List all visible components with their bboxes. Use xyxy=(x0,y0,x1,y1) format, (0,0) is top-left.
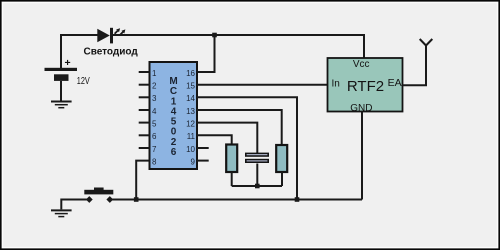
svg-text:RTF2: RTF2 xyxy=(347,78,384,95)
svg-text:+: + xyxy=(65,57,71,69)
resistor R2 xyxy=(276,145,287,172)
wire resistor R2 to common node rail xyxy=(281,172,283,186)
wire battery minus to ground xyxy=(60,81,62,101)
wire LED cathode to RTF2 Vcc xyxy=(113,35,364,59)
wire IC pin 14 to ground rail xyxy=(197,97,297,199)
svg-text:7: 7 xyxy=(152,145,157,154)
svg-text:14: 14 xyxy=(186,94,195,103)
svg-text:5: 5 xyxy=(152,120,157,129)
junction node pin8/ground rail xyxy=(134,197,139,202)
wire top rail to IC pin 16 xyxy=(197,35,215,72)
wire RTF2 GND to ground rail xyxy=(361,112,363,200)
wire battery plus up and right to LED anode xyxy=(61,35,98,68)
svg-text:9: 9 xyxy=(191,158,196,167)
wire IC pin 12 to capacitor C1 xyxy=(197,123,257,154)
wire resistor R1 to common node rail xyxy=(231,172,233,186)
antenna W1 xyxy=(420,39,433,46)
ground (switch) xyxy=(51,210,72,216)
svg-text:4: 4 xyxy=(152,107,157,116)
svg-text:15: 15 xyxy=(186,82,195,91)
wire IC pin 11 to resistor R1 xyxy=(197,135,232,144)
junction node capacitor/rail xyxy=(255,184,260,189)
wire IC pin 15 to RTF2 In xyxy=(197,84,328,86)
junction node at top rail x=214.5 xyxy=(212,33,217,38)
wire IC pin 8 to ground rail xyxy=(136,161,149,200)
svg-text:1: 1 xyxy=(152,69,157,78)
capacitor C1 xyxy=(246,153,268,162)
RF module U2 RTF2 xyxy=(328,58,403,114)
junction node pin14/ground rail xyxy=(295,197,300,202)
svg-text:8: 8 xyxy=(152,158,157,167)
svg-text:12V: 12V xyxy=(77,76,90,87)
svg-text:GND: GND xyxy=(350,103,372,114)
svg-text:13: 13 xyxy=(186,107,195,116)
svg-text:In: In xyxy=(332,78,340,89)
svg-text:10: 10 xyxy=(186,145,195,154)
IC U1 MC145026 xyxy=(139,62,209,169)
svg-text:Vcc: Vcc xyxy=(353,59,370,70)
svg-text:6: 6 xyxy=(171,147,177,158)
wire ground to switch xyxy=(61,200,89,210)
LED D1 xyxy=(97,28,125,44)
resistor R1 xyxy=(226,145,237,173)
wire capacitor C1 to common node rail xyxy=(256,164,258,187)
battery B1 12V xyxy=(45,57,91,87)
svg-text:EA: EA xyxy=(388,77,402,89)
pushbutton switch SB1 xyxy=(84,188,113,203)
wire ground rail xyxy=(110,199,362,201)
svg-text:Светодиод: Светодиод xyxy=(84,47,139,58)
ground (battery) xyxy=(51,102,72,108)
svg-text:11: 11 xyxy=(187,132,196,141)
svg-text:3: 3 xyxy=(152,94,157,103)
wire common node rail xyxy=(232,185,282,187)
svg-text:2: 2 xyxy=(152,82,157,91)
svg-text:16: 16 xyxy=(186,69,195,78)
svg-text:6: 6 xyxy=(152,132,157,141)
wire IC pin 13 to resistor R2 xyxy=(197,110,282,145)
svg-text:12: 12 xyxy=(186,120,195,129)
wire RTF2 EA to antenna xyxy=(403,46,427,86)
